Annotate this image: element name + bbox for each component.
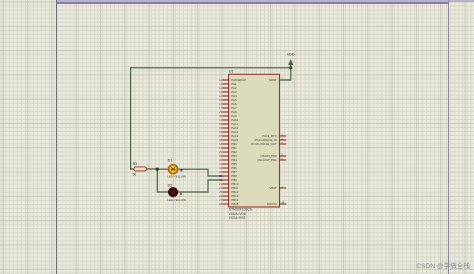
pin PC15-OSC32_OUT (4) — [251, 141, 285, 147]
pin PB10 (21) — [219, 182, 239, 186]
svg-text:VSSA=VSS: VSSA=VSS — [229, 216, 246, 220]
svg-text:44: 44 — [281, 201, 285, 205]
pin PA14 (37) — [219, 134, 239, 138]
pin BOOT0 (44) — [267, 201, 286, 207]
svg-text:VDD: VDD — [287, 53, 295, 57]
LED D1 (lit, yellow) — [167, 158, 186, 178]
svg-text:D1: D1 — [168, 158, 173, 162]
pin PB5 (41) — [219, 162, 237, 166]
pin PA11 (32) — [219, 122, 238, 126]
IC U1 (STM32F103C6 microcontroller) body — [229, 74, 280, 207]
wire R1 row to node A — [131, 168, 158, 170]
svg-text:NRST: NRST — [269, 78, 277, 82]
pin PB4 (40) — [219, 158, 237, 162]
pin PB14 (27) — [219, 198, 239, 202]
pin PA6 (16) — [219, 102, 237, 106]
pin state indicator (red) at D2 cathode — [180, 193, 182, 195]
wire D1 cathode to PB8 — [178, 169, 223, 176]
pin state indicator (red) at PB9 — [220, 179, 222, 181]
pin PB15 (28) — [219, 202, 239, 206]
pin PA12 (33) — [219, 126, 239, 130]
pin PB11 (22) — [219, 186, 239, 190]
pin state indicator (blue) at D1 cathode — [180, 169, 182, 171]
pin VBAT (1) — [269, 185, 285, 191]
svg-text:PB15: PB15 — [231, 202, 238, 206]
wire node A down to D2 — [157, 169, 168, 192]
wire node A to D1 anode — [157, 168, 168, 170]
pin PB6 (42) — [219, 166, 237, 170]
junction VDD rail — [289, 66, 292, 69]
wire VDD top rail — [131, 67, 291, 69]
pin PB7 (43) — [219, 170, 237, 174]
svg-text:BOOT0: BOOT0 — [267, 202, 277, 206]
svg-text:R1: R1 — [133, 162, 138, 166]
wire left drop to R1 — [130, 68, 132, 169]
svg-text:U1: U1 — [229, 70, 234, 74]
svg-text:D2: D2 — [168, 184, 173, 188]
pin PA10 (31) — [219, 118, 239, 122]
pin PA1 (11) — [219, 82, 237, 86]
pin PB13 (26) — [219, 194, 239, 198]
svg-text:VBAT: VBAT — [269, 186, 277, 190]
power symbol VDD — [287, 53, 295, 68]
svg-text:50: 50 — [133, 172, 137, 176]
pin NRST (7) — [269, 77, 286, 83]
svg-text:28: 28 — [219, 202, 223, 206]
svg-text:LED-YELLOW: LED-YELLOW — [167, 198, 186, 202]
pin PB8 (45) — [219, 174, 237, 178]
pin PA7 (17) — [219, 106, 237, 110]
pin PB0 (18) — [219, 142, 237, 146]
pin PB2 (20) — [219, 150, 237, 154]
pin OSCIN_PD0 (5) — [260, 153, 285, 159]
pin PA3 (13) — [219, 90, 237, 94]
pin PC13_RTC (2) — [262, 133, 286, 139]
svg-text:OSCOUT_PD1: OSCOUT_PD1 — [257, 158, 277, 162]
pin PA0-WKUP (10) — [219, 78, 246, 82]
pin PB9 (46) — [219, 178, 237, 182]
pin PB12 (25) — [219, 190, 239, 194]
pin PA2 (12) — [219, 86, 237, 90]
pin OSCOUT_PD1 (6) — [257, 157, 286, 163]
pin state indicator (blue) at PB8 — [220, 175, 222, 177]
pin PC14-OSC32_IN (3) — [255, 137, 286, 143]
junction node A — [156, 168, 159, 171]
svg-text:PC15-OSC32_OUT: PC15-OSC32_OUT — [251, 142, 277, 146]
LED D2 (off, dark) — [167, 184, 186, 202]
pin PA8 (29) — [219, 110, 237, 114]
pin PA5 (15) — [219, 98, 237, 102]
pin PA15 (38) — [219, 138, 239, 142]
resistor R1 — [133, 162, 147, 171]
wire VDD drop to NRST — [280, 68, 291, 80]
pin PB3 (39) — [219, 154, 237, 158]
pin PA13 (34) — [219, 130, 239, 134]
pin PB1 (19) — [219, 146, 237, 150]
svg-text:LED-YELLOW: LED-YELLOW — [167, 175, 186, 179]
pin PA9 (30) — [219, 114, 237, 118]
wire D2 cathode to PB9 — [178, 180, 223, 192]
pin PA4 (14) — [219, 94, 237, 98]
